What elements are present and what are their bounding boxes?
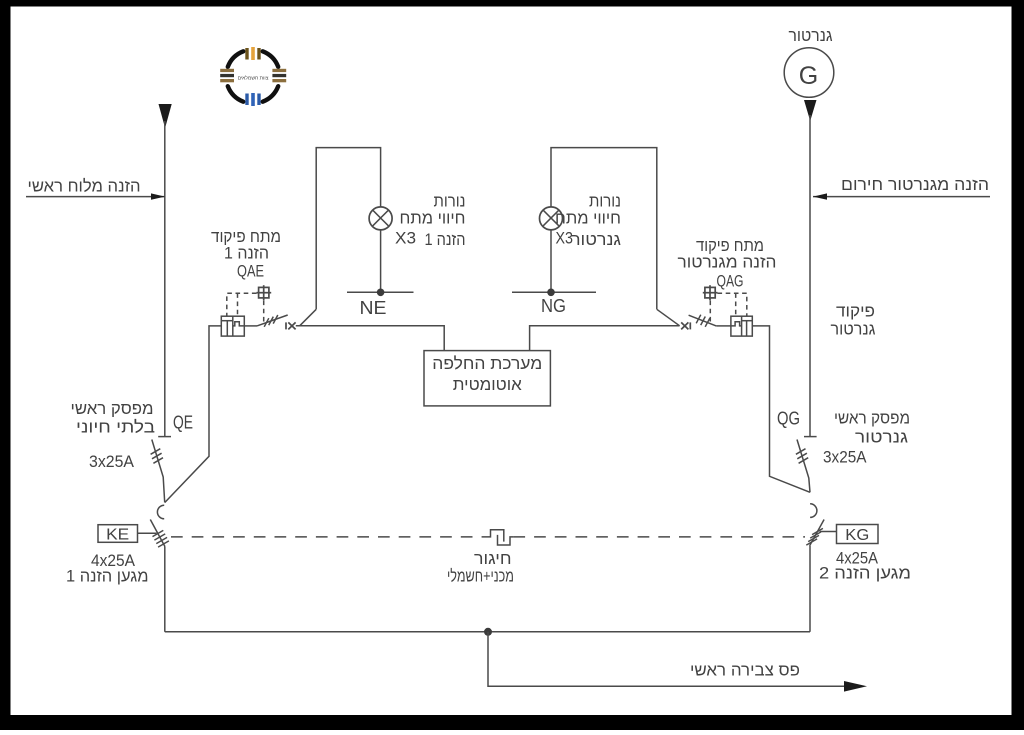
socket symbol QAE	[257, 285, 272, 300]
generator feed arrowhead	[804, 100, 817, 121]
wire main feed vertical	[164, 121, 166, 436]
coil box KE	[98, 525, 138, 544]
svg-text:KE: KE	[106, 527, 129, 544]
svg-text:מפסק ראשי: מפסק ראשי	[834, 409, 910, 428]
breaker QG pole ticks	[796, 449, 808, 464]
arrowhead emergency feed	[813, 193, 827, 199]
switch QAG blade	[689, 315, 717, 326]
svg-text:הזנה 1: הזנה 1	[224, 244, 269, 263]
motor drive QAG	[731, 316, 752, 336]
svg-text:הזנה מלוח ראשי: הזנה מלוח ראשי	[28, 177, 141, 196]
dashed interlock line right	[513, 536, 805, 538]
wire QAE box to blade	[244, 325, 257, 327]
contactor KE hinge arc	[157, 505, 164, 519]
switch QAE pole ticks	[264, 315, 278, 327]
contactor KE blade	[150, 520, 165, 547]
label main breaker non-essential	[71, 399, 156, 437]
svg-text:מכני+חשמלי: מכני+חשמלי	[447, 567, 514, 586]
svg-text:גנרטור: גנרטור	[571, 230, 621, 249]
breaker QE pole ticks	[151, 449, 163, 464]
svg-text:QG: QG	[777, 409, 800, 429]
lamp H1 X3	[369, 207, 392, 230]
wire right loop diagonal to QAG contact	[657, 309, 680, 326]
wire lamp H2 to NG	[550, 229, 552, 292]
svg-text:מערכת החלפה: מערכת החלפה	[432, 354, 542, 373]
svg-text:חיווי מתח: חיווי מתח	[400, 209, 466, 228]
svg-text:צוות חשמלאים: צוות חשמלאים	[238, 75, 269, 82]
dashed link QAE	[227, 293, 264, 323]
svg-text:מפסק ראשי: מפסק ראשי	[71, 399, 154, 418]
wire KG box to blade	[820, 531, 837, 533]
node NG junction dot	[547, 289, 555, 297]
breaker QG blade	[797, 440, 810, 493]
wire emergency feed arrow line	[813, 196, 990, 198]
svg-text:פיקוד: פיקוד	[836, 302, 875, 321]
wire bottom bus	[165, 631, 810, 633]
contactor KG hinge arc	[810, 504, 817, 518]
svg-text:QE: QE	[173, 413, 193, 433]
coil box KG	[837, 525, 879, 545]
interlock symbol	[482, 530, 514, 545]
label lamps generator block	[555, 192, 621, 250]
svg-text:פס צבירה ראשי: פס צבירה ראשי	[690, 661, 800, 680]
label generator control	[831, 302, 876, 339]
switch QAG pole ticks	[696, 315, 710, 327]
wire QAE node to changeover box	[296, 326, 444, 351]
wire KE box to blade	[138, 532, 157, 534]
svg-text:גנרטור: גנרטור	[789, 26, 833, 45]
company logo	[220, 47, 286, 106]
changeover system box A1	[424, 351, 550, 406]
socket symbol QAG	[703, 285, 718, 300]
node NE junction dot	[377, 289, 385, 297]
main feed arrowhead top left	[159, 104, 172, 128]
svg-text:3x25A: 3x25A	[89, 452, 135, 471]
svg-text:QAG: QAG	[717, 272, 744, 291]
svg-text:3x25A: 3x25A	[823, 448, 867, 467]
switch QAE blade	[257, 315, 288, 326]
label QAG control voltage	[678, 236, 777, 291]
breaker QG fixed contact	[804, 436, 817, 438]
svg-text:KG: KG	[845, 527, 869, 544]
arrowhead main busbar	[844, 681, 867, 692]
wire QAG box to blade	[716, 325, 731, 327]
label main breaker generator	[834, 409, 910, 447]
arrowhead main feed	[151, 193, 165, 199]
svg-text:NG: NG	[541, 296, 566, 316]
motor drive QAE	[221, 316, 244, 336]
svg-text:NE: NE	[360, 298, 387, 318]
label lamps feed 1 block	[395, 192, 466, 250]
svg-text:אוטומטית: אוטומטית	[453, 375, 522, 394]
generator G1 circle	[784, 48, 834, 98]
breaker QE fixed contact	[158, 436, 171, 438]
node bottom junction dot	[484, 628, 492, 636]
wire QAG node to changeover box	[530, 326, 680, 351]
wire generator vertical	[809, 115, 811, 436]
wire right vertical to bottom	[809, 546, 811, 632]
dashed interlock line left	[171, 536, 482, 538]
dashed link QAG	[710, 293, 747, 322]
svg-text:מגען הזנה 2: מגען הזנה 2	[819, 564, 911, 583]
label QAE control voltage	[211, 227, 281, 281]
lamp H2 X3	[540, 207, 563, 230]
node NG bar	[512, 291, 596, 293]
svg-text:QAE: QAE	[237, 262, 264, 281]
contactor KG blade	[810, 520, 825, 546]
svg-text:גנרטור: גנרטור	[855, 428, 908, 447]
wire left vertical to bottom	[164, 547, 166, 632]
wire main feed arrow line	[26, 196, 165, 198]
svg-text:הזנה 1: הזנה 1	[425, 230, 466, 249]
svg-text:G: G	[799, 62, 818, 90]
wire right lamp loop	[551, 148, 657, 310]
wire lamp H1 to NE	[380, 229, 382, 292]
svg-text:בלתי חיוני: בלתי חיוני	[76, 418, 155, 437]
wire QAG branch riser	[752, 326, 810, 492]
svg-text:X3: X3	[395, 229, 416, 248]
svg-text:חיווי מתח: חיווי מתח	[555, 209, 621, 228]
svg-text:גנרטור: גנרטור	[831, 320, 876, 339]
plug contact QAG	[681, 322, 690, 329]
node NE bar	[347, 291, 414, 293]
breaker QE blade	[152, 440, 165, 503]
svg-text:חיגור: חיגור	[474, 549, 512, 568]
svg-text:הזנה מגנרטור: הזנה מגנרטור	[678, 253, 777, 272]
contactor KG pole ticks	[806, 528, 823, 545]
wire to main busbar	[488, 632, 844, 687]
wire left lamp loop	[316, 148, 380, 310]
svg-text:הזנה מגנרטור חירום: הזנה מגנרטור חירום	[841, 175, 989, 194]
label interlock	[447, 549, 514, 586]
svg-text:מגען הזנה 1: מגען הזנה 1	[66, 567, 149, 586]
wire left loop diagonal to QAE contact	[300, 309, 317, 326]
wire QAE branch riser	[165, 326, 222, 503]
plug contact QAE	[286, 322, 296, 329]
svg-text:X3: X3	[556, 229, 574, 248]
contactor KE pole ticks	[153, 530, 169, 547]
